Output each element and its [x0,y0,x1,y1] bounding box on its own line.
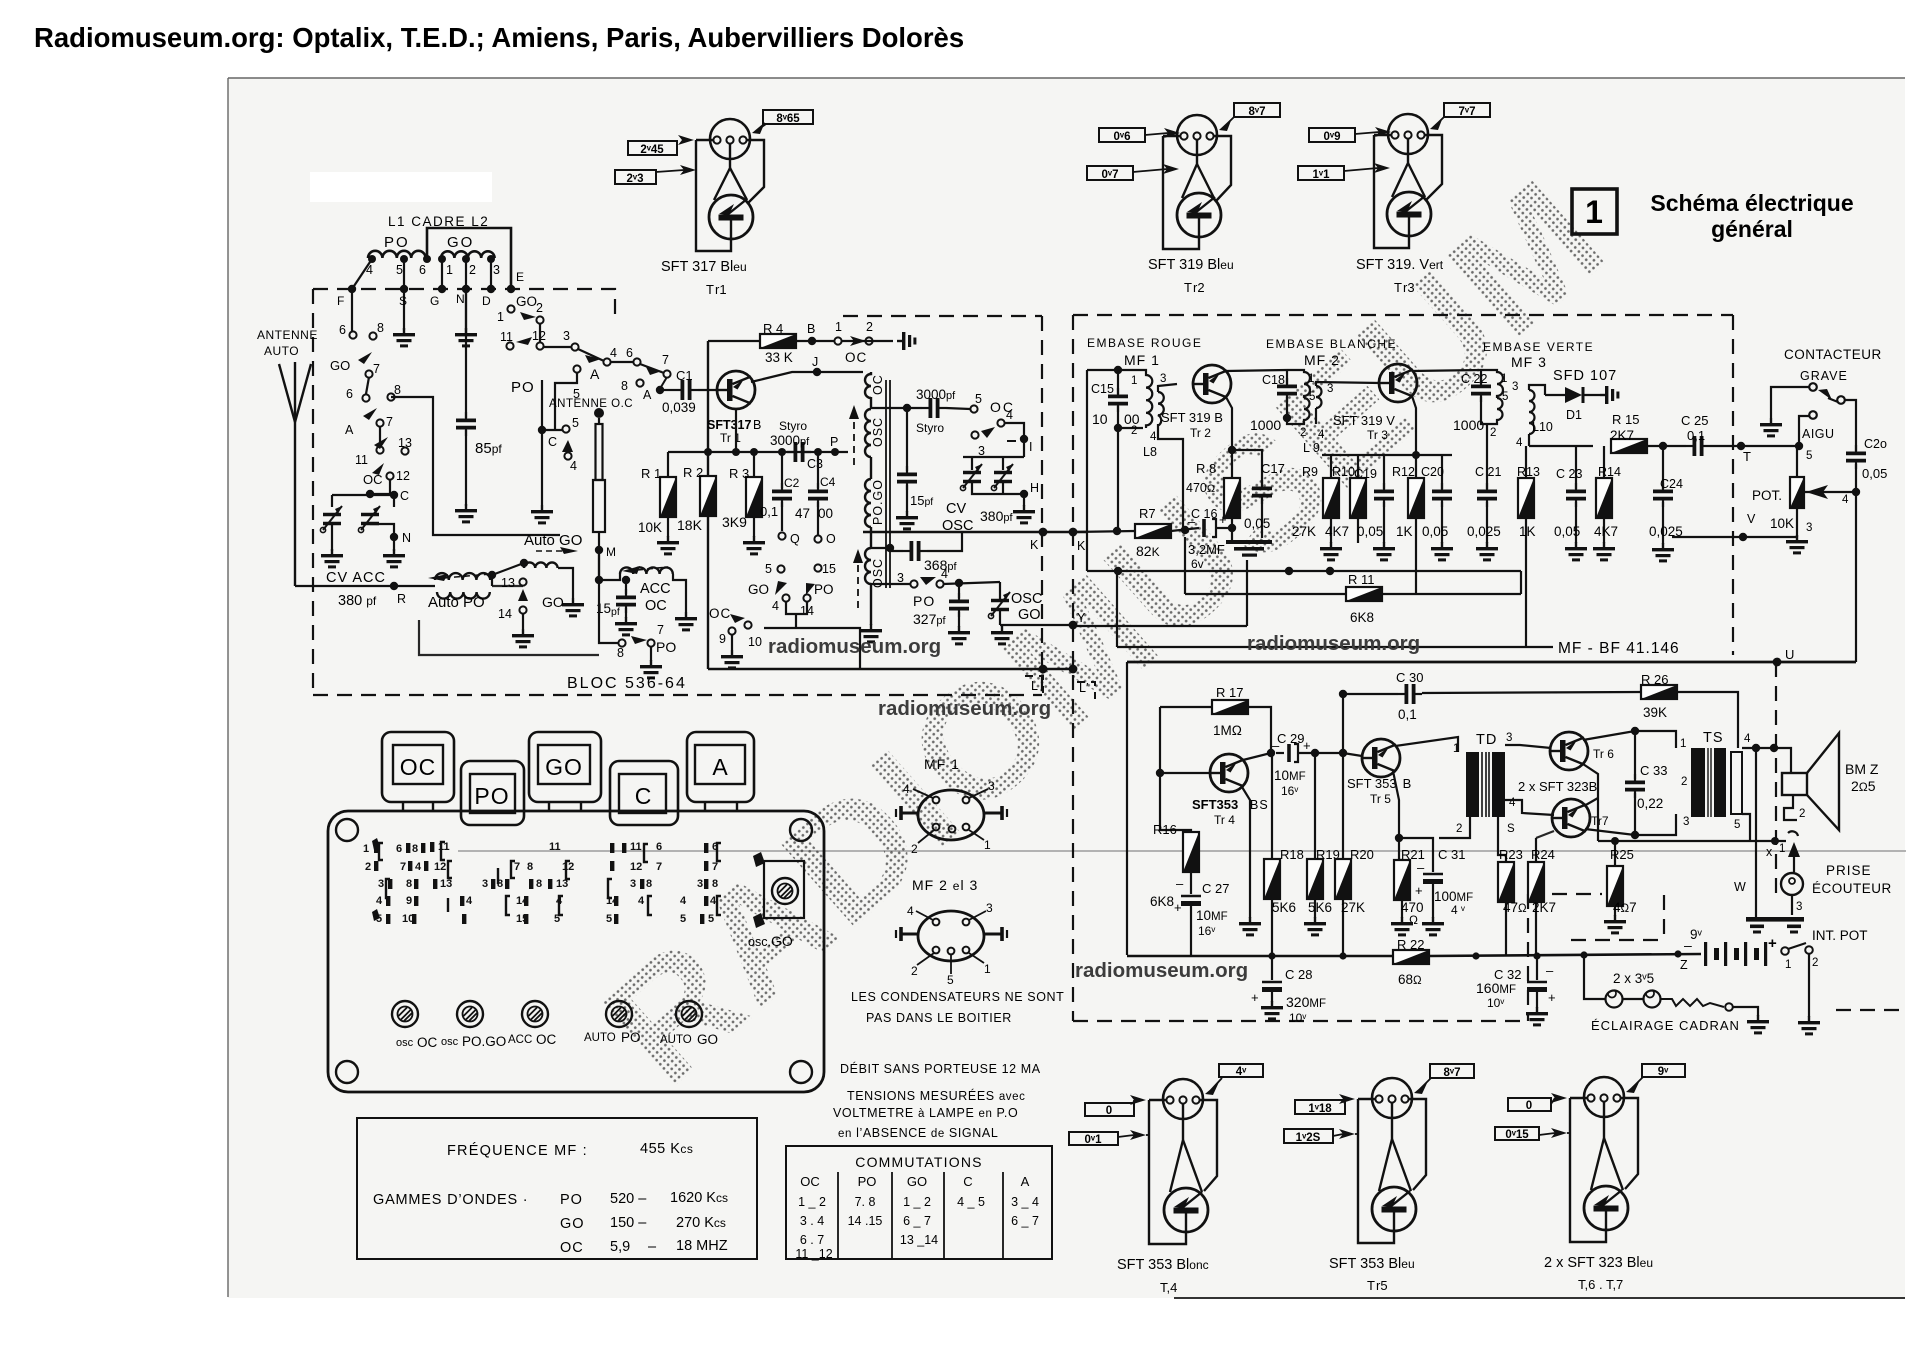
svg-text:10K: 10K [1770,516,1794,531]
transistor Tr5 package symbol [1372,1187,1416,1231]
svg-text:10K: 10K [638,520,662,535]
wire Tr6 Tr7 emitters to R25 [1536,764,1786,866]
transformer TS output [1680,730,1751,831]
variable capacitor CV ACC section 1 [320,506,342,533]
svg-text:C 16: C 16 [1191,507,1217,521]
variable capacitor OSC GO [988,582,1042,625]
svg-text:5: 5 [1502,391,1508,403]
voltage label 8V65 at Tr1 collector [752,110,813,134]
svg-text:1K: 1K [1396,524,1413,539]
ground R19 [1304,917,1326,936]
connector tab A [687,732,754,812]
svg-text:10MF: 10MF [1196,908,1228,923]
svg-text:1: 1 [363,843,369,855]
ground wide under C16 C17 [1226,540,1272,557]
svg-text:455 Kcs: 455 Kcs [640,1141,693,1157]
svg-text:2: 2 [1300,427,1306,439]
svg-text:COMMUTATIONS: COMMUTATIONS [855,1154,982,1170]
svg-text:BLOC 536-64: BLOC 536-64 [567,675,687,692]
svg-text:4: 4 [415,861,422,873]
erased white patch [310,172,492,202]
svg-text:O: O [826,532,836,546]
svg-text:4: 4 [907,904,914,918]
svg-text:3: 3 [1796,901,1802,913]
svg-text:6 . 7: 6 . 7 [800,1233,824,1247]
capacitor C17 [1232,450,1285,538]
svg-text:1: 1 [984,962,991,976]
voltage label 0V6 at Tr2 [1099,128,1180,143]
capacitor C29 electrolytic [1272,731,1343,798]
voltage label 0 at Tr4 [1085,1095,1146,1117]
connector tab GO [529,732,601,812]
svg-text:GO: GO [447,234,474,251]
svg-text:0,1: 0,1 [1398,707,1417,722]
svg-text:GO: GO [516,294,537,309]
svg-text:27K: 27K [1341,900,1365,915]
voltage label 1V25 at Tr5 [1284,1129,1358,1144]
svg-text:4 _ 5: 4 _ 5 [957,1195,985,1209]
wire Tr4 collector [1243,753,1271,760]
trimmer osc GO box [748,852,804,949]
svg-text:–: – [1546,963,1554,978]
svg-text:en l’ABSENCE de SIGNAL: en l’ABSENCE de SIGNAL [838,1126,998,1140]
ground OC 9 [721,650,743,669]
ground contacteur [1760,418,1782,437]
svg-text:6K8: 6K8 [1150,894,1174,909]
svg-text:8ᵛ65: 8ᵛ65 [776,113,800,125]
coil L2 GO [441,251,495,258]
svg-text:S: S [1507,823,1515,835]
svg-text:1: 1 [1453,743,1459,755]
svg-text:SFT 353 Bleu: SFT 353 Bleu [1329,1256,1415,1272]
ground 15pf osc [896,511,918,530]
svg-text:C 22: C 22 [1461,372,1487,386]
svg-text:BM Z: BM Z [1845,761,1879,777]
resistor R14 [1594,446,1621,543]
svg-text:4: 4 [1509,797,1516,809]
svg-text:4: 4 [941,567,948,581]
svg-text:6v: 6v [1191,557,1204,571]
svg-text:EMBASE BLANCHE: EMBASE BLANCHE [1266,337,1397,351]
svg-text:T,6 . T,7: T,6 . T,7 [1578,1277,1623,1292]
pilot lamps 2x3V5 [1584,955,1758,1033]
node M [595,546,603,554]
wire ACC OC ends [599,550,686,612]
resistor R20 [1335,694,1374,956]
node C junction [366,490,374,498]
svg-text:9: 9 [406,895,412,907]
capacitor C27 electrolytic [1174,872,1229,956]
svg-text:ÉCLAIRAGE CADRAN: ÉCLAIRAGE CADRAN [1591,1018,1740,1033]
svg-text:AUTO: AUTO [584,1032,616,1044]
connector tab C [610,761,678,825]
svg-text:10ᵛ: 10ᵛ [1487,996,1504,1010]
ground R1 [657,536,679,555]
svg-text:2K7: 2K7 [1532,900,1556,915]
svg-text:1: 1 [1680,738,1686,750]
svg-text:EMBASE ROUGE: EMBASE ROUGE [1087,336,1202,350]
node pins 4 5 6 1 2 3 [368,255,495,263]
svg-text:T r2: T r2 [1184,280,1205,295]
svg-text:OC: OC [800,1174,820,1189]
wire detector to R15 [1529,445,1593,447]
svg-text:R10: R10 [1332,465,1355,479]
svg-text:2: 2 [1456,823,1462,835]
voltage label 1V18 at Tr5 [1295,1094,1355,1115]
svg-text:6: 6 [419,263,426,277]
transistor Tr1 package symbol [709,195,753,239]
svg-text:11: 11 [355,453,368,467]
svg-text:150 –: 150 – [610,1215,647,1231]
svg-text:C1: C1 [676,368,693,383]
svg-text:8: 8 [712,878,718,890]
svg-text:7: 7 [400,861,406,873]
svg-text:ÉCOUTEUR: ÉCOUTEUR [1812,881,1892,896]
svg-text:R 2: R 2 [683,465,703,480]
capacitor C2 [760,452,800,531]
svg-text:PO: PO [560,1192,583,1208]
contacts 7 8 PO bottom [617,623,664,660]
wire pin drops [352,259,491,330]
svg-text:C4: C4 [820,475,836,489]
wire auto coils [492,563,573,598]
svg-text:R 11: R 11 [1348,572,1375,587]
transistor Tr3 SFT319V [1379,364,1417,402]
svg-text:P: P [830,435,838,449]
svg-text:2 x SFT 323B: 2 x SFT 323B [1518,779,1597,794]
switch contacts GO row left [330,321,412,545]
svg-text:5: 5 [1309,391,1315,403]
svg-text:11: 11 [549,841,561,853]
svg-text:L: L [1031,679,1038,693]
svg-text:6: 6 [346,387,353,401]
wire L rail bottom [708,668,1073,671]
svg-text:1: 1 [1585,194,1603,230]
transformer MF2 L9 [1287,370,1380,424]
svg-text:osc: osc [441,1036,459,1048]
svg-text:2K7: 2K7 [1610,428,1634,443]
svg-text:3,2MF: 3,2MF [1188,542,1225,557]
svg-text:18 MHZ: 18 MHZ [676,1238,728,1254]
svg-text:4K7: 4K7 [1594,524,1618,539]
svg-text:L8: L8 [1143,445,1157,459]
svg-text:Tr 6: Tr 6 [1593,747,1614,761]
svg-text:+: + [1303,738,1311,753]
svg-text:R 1: R 1 [641,466,661,481]
sheet border frame [228,77,1905,79]
wire Tr4 emitter to ground [1242,787,1250,918]
ground sideways after OC contact [897,332,916,350]
telescopic antenna rod [593,418,605,580]
svg-text:5: 5 [708,913,714,925]
wire GO PO contacts join [764,601,860,669]
svg-text:R: R [397,592,406,606]
resistor R3 [722,452,762,537]
mounting hole top left [336,819,358,841]
transistor Tr2 SFT319B [1193,365,1231,403]
svg-text:OSC: OSC [1011,591,1042,607]
svg-text:C2o: C2o [1864,437,1887,451]
svg-text:3: 3 [378,878,384,890]
svg-text:R 17: R 17 [1216,685,1243,700]
svg-text:A: A [643,388,652,402]
capacitor C20 [1421,455,1452,543]
svg-text:2: 2 [536,301,543,315]
svg-text:OC: OC [536,1032,557,1047]
svg-text:OC: OC [845,350,867,365]
svg-text:Tr 1: Tr 1 [720,431,741,445]
svg-text:2: 2 [365,861,371,873]
svg-text:PRISE: PRISE [1826,863,1872,878]
svg-text:PO: PO [858,1174,877,1189]
svg-text:5: 5 [572,416,579,430]
svg-text:1ᵛ18: 1ᵛ18 [1308,1103,1332,1115]
svg-text:5: 5 [680,913,686,925]
svg-text:3000pf: 3000pf [916,387,956,402]
node A [656,386,664,394]
coil ACC OC [620,566,673,574]
svg-text:8: 8 [406,878,412,890]
svg-text:4: 4 [1150,431,1157,443]
svg-text:2 x SFT 323 Bleu: 2 x SFT 323 Bleu [1544,1255,1653,1271]
capacitor C21 [1467,424,1501,543]
wire cadre loop bracket [427,228,511,289]
resistor R7 [1073,506,1199,559]
svg-text:0,05: 0,05 [1554,524,1580,539]
svg-text:0ᵛ1: 0ᵛ1 [1085,1134,1103,1146]
svg-text:7: 7 [712,861,718,873]
svg-text:4Ω7: 4Ω7 [1613,900,1637,915]
contacts C 5 4 [548,416,579,473]
svg-text:520 –: 520 – [610,1191,647,1207]
svg-text:R 22: R 22 [1397,937,1424,952]
svg-text:2: 2 [866,320,873,334]
svg-text:11: 11 [630,841,642,853]
svg-text:Radiomuseum.org: Optalix, T.E.: Radiomuseum.org: Optalix, T.E.D.; Amiens… [34,22,964,53]
svg-text:4: 4 [903,782,910,796]
voltage label 0V15 at Tr6 Tr7 [1495,1127,1570,1141]
svg-text:2: 2 [1131,425,1137,437]
svg-text:C17: C17 [1261,461,1285,476]
svg-text:OC: OC [709,606,731,621]
node N [390,533,398,541]
voltage label 9V at Tr6 Tr7 [1626,1064,1685,1093]
ground C28 [1261,1001,1283,1020]
svg-text:R24: R24 [1531,847,1555,862]
voltage label 7V7 at Tr3 [1430,103,1490,130]
svg-text:9ᵛ: 9ᵛ [1658,1066,1669,1078]
svg-text:R13: R13 [1517,465,1540,479]
svg-text:radiomuseum.org: radiomuseum.org [768,635,941,658]
svg-text:C15: C15 [1091,382,1114,396]
capacitor C3 styro [770,419,823,471]
svg-text:–: – [1417,860,1425,875]
svg-text:5: 5 [606,913,612,925]
resistor R11 [1346,572,1382,625]
svg-text:0,05: 0,05 [1357,524,1383,539]
svg-text:7: 7 [662,353,669,367]
svg-text:6: 6 [339,323,346,337]
svg-text:15pf: 15pf [910,493,933,508]
svg-text:3: 3 [697,878,703,890]
capacitor C22 [1453,370,1491,433]
svg-text:radiomuseum.org: radiomuseum.org [1075,959,1248,982]
svg-text:R20: R20 [1350,847,1374,862]
svg-text:4: 4 [680,895,687,907]
potentiometer POT 10K [1672,446,1860,541]
svg-text:0,05: 0,05 [1244,516,1270,531]
svg-text:B: B [807,322,815,336]
voltage label 2V3 at Tr1 [615,165,696,185]
svg-text:TENSIONS MESURÉES avec: TENSIONS MESURÉES avec [847,1088,1026,1103]
svg-text:12: 12 [434,861,446,873]
svg-text:L10: L10 [1532,420,1553,434]
svg-text:C18: C18 [1262,373,1285,387]
svg-text:4: 4 [1842,494,1849,506]
svg-text:1: 1 [497,310,504,324]
svg-text:4: 4 [610,346,617,360]
wire Tr2 collector to C18 [1226,370,1287,371]
node auto junction [488,571,496,579]
svg-text:+: + [1548,990,1556,1005]
svg-text:1000: 1000 [1250,417,1281,433]
svg-text:C2: C2 [784,476,800,490]
svg-text:AIGU: AIGU [1802,427,1835,441]
svg-text:ACC: ACC [640,581,671,597]
wire R17 loop [1160,707,1271,850]
svg-text:ANTENNE O.C: ANTENNE O.C [549,398,633,410]
svg-text:0,05: 0,05 [1862,466,1887,481]
capacitor C23 [1554,446,1586,543]
MF2 et 3 socket pinout [896,877,1007,987]
svg-text:3: 3 [482,878,488,890]
svg-text:8: 8 [536,878,542,890]
switch OC 9 10 [709,606,762,649]
svg-text:3: 3 [1683,816,1689,828]
svg-text:33 K: 33 K [765,350,793,365]
svg-text:Tr 2: Tr 2 [1190,426,1211,440]
svg-text:380 pf: 380 pf [338,593,377,609]
svg-text:0,1: 0,1 [1687,428,1705,443]
svg-text:R16: R16 [1153,822,1177,837]
switch contacts Q O 5 15 GO PO [777,532,821,601]
svg-text:3: 3 [1512,381,1518,393]
svg-text:47Ω: 47Ω [1503,900,1527,915]
scan crease line [458,850,1906,852]
capacitor C31 electrolytic [1399,838,1473,918]
svg-text:+: + [1415,883,1423,898]
svg-text:SFT 353 Blonc: SFT 353 Blonc [1117,1257,1209,1273]
ground osc bottom [860,624,882,643]
wire Tr5 emitter [1393,771,1399,838]
speaker BM Z [1782,733,1879,830]
svg-text:+: + [1219,512,1227,527]
svg-text:2: 2 [1490,427,1496,439]
svg-text:PO: PO [621,1030,641,1045]
wire Tr3 emitter [1412,396,1416,455]
ground OSC GO [991,626,1013,645]
svg-text:1: 1 [984,838,991,852]
mounting hole top right [790,819,812,841]
svg-text:3 _ 4: 3 _ 4 [1011,1195,1039,1209]
svg-text:4: 4 [1516,437,1523,449]
svg-text:C 29: C 29 [1277,731,1304,746]
antenna OC terminal [594,408,604,418]
svg-text:A: A [345,423,354,437]
svg-text:N: N [402,531,411,545]
figure number box 1 [1572,189,1617,234]
wire Tr2 emitter [1226,397,1232,477]
transistor Tr5 SFT353B [1362,739,1400,777]
svg-text:+: + [1768,935,1777,952]
table frequence MF [357,1118,757,1259]
resistor R19 [1307,753,1340,918]
ground under PO 8 [640,660,662,679]
resistor R25 [1607,847,1637,916]
svg-text:T: T [1743,449,1751,464]
svg-text:470Ω: 470Ω [1186,481,1215,495]
svg-text:3: 3 [986,901,993,915]
svg-text:TD: TD [1476,732,1497,748]
svg-text:8ᵛ7: 8ᵛ7 [1444,1067,1461,1079]
svg-text:100MF: 100MF [1434,889,1473,904]
svg-text:T r5: T r5 [1367,1278,1388,1293]
svg-text:5: 5 [1806,450,1812,462]
wire MF2 emitter rail [1322,454,1452,456]
wire C contact [542,380,568,505]
svg-text:C 31: C 31 [1438,847,1465,862]
svg-text:1: 1 [446,263,453,277]
svg-text:PO: PO [656,639,676,655]
transistor Tr4 package symbol [1164,1188,1208,1232]
ground C21 [1476,542,1498,561]
svg-text:Styro: Styro [916,421,944,435]
svg-text:4: 4 [1318,429,1325,441]
MF1 socket pinout [896,756,1007,856]
capacitor C24 [1649,446,1683,544]
voltage label 8V7 at Tr2 [1219,103,1280,131]
svg-text:C19: C19 [1354,467,1377,481]
svg-text:R 4: R 4 [763,321,783,336]
svg-text:8: 8 [617,646,624,660]
svg-text:radiomuseum.org: radiomuseum.org [878,697,1051,720]
svg-text:MF 2: MF 2 [1304,352,1340,368]
svg-text:1620 Kcs: 1620 Kcs [670,1190,728,1206]
transformer MF3 L10 [1481,370,1545,446]
svg-text:Q: Q [790,532,800,546]
resistor R15 [1610,412,1647,453]
capacitor C16 electrolytic [1188,507,1232,571]
ground CV ACC right [383,549,405,568]
svg-text:2: 2 [911,964,918,978]
dashed gang arrow top [853,412,855,465]
svg-text:AUTO: AUTO [660,1034,692,1046]
svg-text:radiomuseum.org: radiomuseum.org [1247,632,1420,655]
svg-text:C 21: C 21 [1475,465,1501,479]
resistor R4 [760,321,796,365]
svg-text:SFT 319 Bleu: SFT 319 Bleu [1148,257,1234,273]
svg-text:SFT 317 Bleu: SFT 317 Bleu [661,259,747,275]
svg-text:8ᵛ7: 8ᵛ7 [1249,106,1266,118]
svg-text:T,4: T,4 [1160,1280,1177,1295]
svg-text:CV ACC: CV ACC [326,570,386,586]
svg-text:C 30: C 30 [1396,670,1423,685]
wire bottom PO contact [419,580,651,661]
svg-text:SFT317: SFT317 [707,418,752,432]
ground C23 [1565,542,1587,561]
wire R4 row [708,340,893,342]
wire Tr5 pinout leads [1358,1099,1426,1243]
